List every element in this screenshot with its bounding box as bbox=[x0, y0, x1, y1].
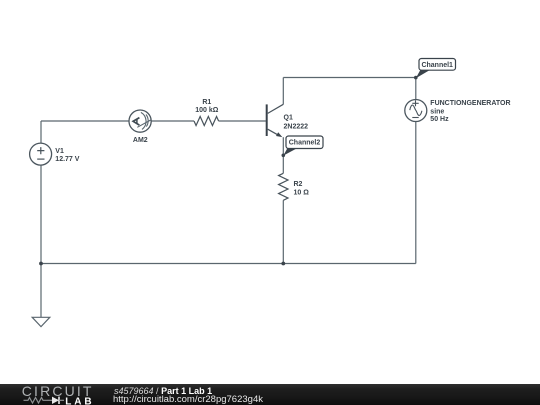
svg-text:sine: sine bbox=[430, 109, 444, 116]
footer bar bbox=[0, 384, 540, 405]
svg-text:LAB: LAB bbox=[65, 397, 94, 405]
label Q1 type 2N2222 bbox=[284, 123, 309, 130]
svg-text:2N2222: 2N2222 bbox=[284, 123, 309, 130]
wire emitter vertical bbox=[282, 137, 284, 173]
footer line 1: s4579664 / Part 1 Lab 1 bbox=[114, 386, 212, 396]
label R2 value 10 Ohm bbox=[294, 190, 310, 197]
svg-text:AM2: AM2 bbox=[133, 137, 148, 144]
logo resistor zigzag bbox=[24, 398, 48, 404]
wire V1 top vertical bbox=[40, 121, 42, 143]
resistor R2 bbox=[279, 173, 288, 200]
resistor R1 bbox=[194, 117, 219, 126]
label V1 value 12.77 V bbox=[55, 156, 79, 163]
CircuitLab logo symbol (resistor + diode) and LAB bbox=[22, 394, 97, 405]
flag Channel1 bbox=[414, 59, 456, 80]
svg-text:R2: R2 bbox=[294, 181, 303, 188]
svg-text:12.77 V: 12.77 V bbox=[55, 156, 79, 163]
wire top-left horizontal to ammeter bbox=[41, 120, 129, 122]
junction node: ground/V1 bottom bbox=[39, 262, 43, 266]
svg-text:10 Ω: 10 Ω bbox=[294, 190, 310, 197]
wire collector vertical bbox=[282, 78, 284, 105]
wire R1 to Q1 base bbox=[219, 120, 266, 122]
logo wire to diode bbox=[47, 399, 52, 401]
wire V1 bottom vertical bbox=[40, 165, 42, 263]
svg-text:V1: V1 bbox=[55, 148, 64, 155]
svg-text:FUNCTIONGENERATOR: FUNCTIONGENERATOR bbox=[430, 100, 510, 107]
svg-text:Channel2: Channel2 bbox=[289, 140, 321, 147]
svg-text:50 Hz: 50 Hz bbox=[430, 116, 449, 123]
label R1 value 100 kOhm bbox=[195, 107, 219, 114]
svg-text:100 kΩ: 100 kΩ bbox=[195, 107, 219, 114]
label 50 Hz bbox=[430, 116, 449, 123]
label FUNCTIONGENERATOR bbox=[430, 100, 510, 107]
wire ground stem bbox=[40, 264, 42, 318]
svg-text:Channel1: Channel1 bbox=[421, 62, 453, 69]
flag Channel2 bbox=[282, 136, 324, 157]
wire top horizontal bbox=[283, 77, 416, 79]
wire ammeter to R1 bbox=[151, 120, 194, 122]
label AM2 bbox=[133, 137, 148, 144]
wire function generator bottom bbox=[415, 121, 417, 263]
wire function generator top bbox=[415, 78, 417, 100]
logo diode bbox=[52, 397, 64, 404]
CircuitLab logo wordmark CIRCUIT bbox=[22, 383, 94, 399]
wire bottom horizontal bbox=[41, 263, 416, 265]
wire R2 to bottom bbox=[282, 200, 284, 263]
logo LAB text bbox=[65, 397, 94, 405]
ammeter AM2 bbox=[129, 110, 151, 132]
label R2 name bbox=[294, 181, 303, 188]
svg-text:R1: R1 bbox=[202, 99, 211, 106]
label R1 name bbox=[202, 99, 211, 106]
junction node: R2 bottom bbox=[281, 262, 285, 266]
transistor emitter arrow bbox=[276, 132, 282, 137]
function generator source bbox=[405, 100, 427, 122]
label Q1 name bbox=[284, 114, 293, 121]
voltage source V1 bbox=[30, 143, 52, 165]
label V1 name bbox=[55, 148, 64, 155]
footer line 2: url text bbox=[113, 394, 263, 405]
svg-text:Q1: Q1 bbox=[284, 114, 293, 121]
ground symbol bbox=[32, 317, 50, 326]
label sine bbox=[430, 109, 444, 116]
transistor Q1 2N2222 bbox=[267, 104, 284, 136]
